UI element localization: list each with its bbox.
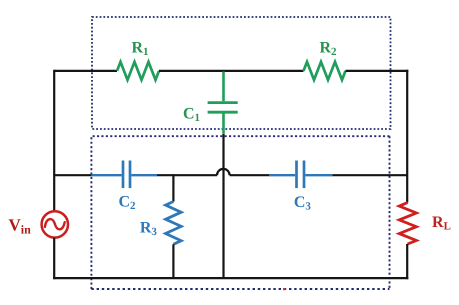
wire bottom [53,277,408,279]
svg-text:C1: C1 [183,106,200,125]
source Vin [42,211,68,237]
wire left vertical upper [53,70,55,211]
capacitor C3 [297,161,305,189]
wire left vertical lower [53,238,55,280]
svg-text:Vin: Vin [9,216,32,237]
wire middle black segment left of hop [157,174,217,176]
wire R3 lower lead [172,244,174,278]
capacitor C1 [208,103,238,113]
wire blue lead to C3 [269,174,295,176]
stray red dot on bottom dotted edge [283,288,285,290]
wire green lead below C1 [222,114,225,135]
svg-text:R1: R1 [131,39,148,58]
svg-text:R3: R3 [140,219,158,238]
top dotted box (R1 R2 C1 group) [92,17,391,129]
wire C2 right blue lead [131,174,157,176]
svg-text:RL: RL [432,214,451,233]
wire R3 upper lead [172,174,174,201]
wire right vertical lower [406,244,408,279]
svg-text:R2: R2 [319,39,337,58]
bottom dotted box (C2 C3 R3 group) [91,136,389,289]
resistor R1 [117,62,159,80]
resistor R3 [166,202,182,245]
capacitor C2 [123,161,130,189]
wire green lead from top to C1 [222,72,225,102]
wire middle blue lead to C2 [91,174,121,176]
wire top-middle segment [159,70,304,72]
wire center vertical black segment [222,134,224,278]
wire middle-right black segment [332,174,407,176]
svg-text:C2: C2 [118,194,136,213]
wire top-right segment [346,70,409,72]
wire C3 right blue lead [305,174,332,176]
wire middle black segment right of hop [230,174,269,176]
wire top-left segment [54,70,117,72]
resistor R2 [304,62,346,80]
wire hop over center node [217,169,230,175]
svg-text:C3: C3 [294,194,312,213]
wire right vertical upper [406,70,408,203]
wire middle-left black segment [54,174,91,176]
resistor RL [399,203,416,244]
